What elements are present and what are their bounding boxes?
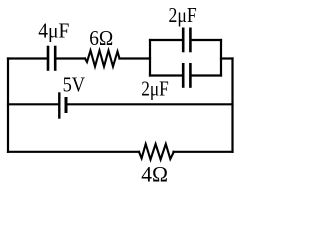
svg-text:6Ω: 6Ω [89, 26, 113, 50]
wire block top branch left [150, 39, 182, 41]
wire jog block to right rail [221, 57, 233, 59]
svg-text:4μF: 4μF [38, 19, 69, 43]
wire block top branch right [192, 39, 221, 41]
wire capacitor to resistor [57, 57, 85, 59]
battery B1 5V [59, 94, 66, 118]
wire block right vertical [220, 40, 222, 76]
capacitor C3 2uF bottom [183, 64, 190, 86]
wire resistor to parallel block [120, 57, 151, 59]
svg-text:4Ω: 4Ω [141, 161, 168, 186]
wire left vertical [7, 59, 9, 152]
resistor R1 6ohm [85, 51, 120, 67]
wire block bottom branch right [192, 74, 221, 76]
wire right vertical [231, 59, 233, 152]
wire bottom rail right segment [174, 151, 233, 153]
svg-text:2μF: 2μF [141, 77, 169, 101]
wire block bottom branch left [150, 74, 182, 76]
wire top rail left segment [8, 57, 47, 59]
svg-text:2μF: 2μF [169, 3, 197, 27]
wire block left vertical [149, 40, 151, 76]
wire bottom rail left segment [8, 151, 139, 153]
capacitor C2 2uF top [183, 29, 190, 51]
wire middle rail right segment [68, 103, 233, 105]
svg-text:5V: 5V [63, 73, 86, 97]
wire middle rail left segment [8, 103, 58, 105]
resistor R2 4ohm [139, 144, 174, 160]
capacitor C1 4uF [48, 47, 55, 70]
